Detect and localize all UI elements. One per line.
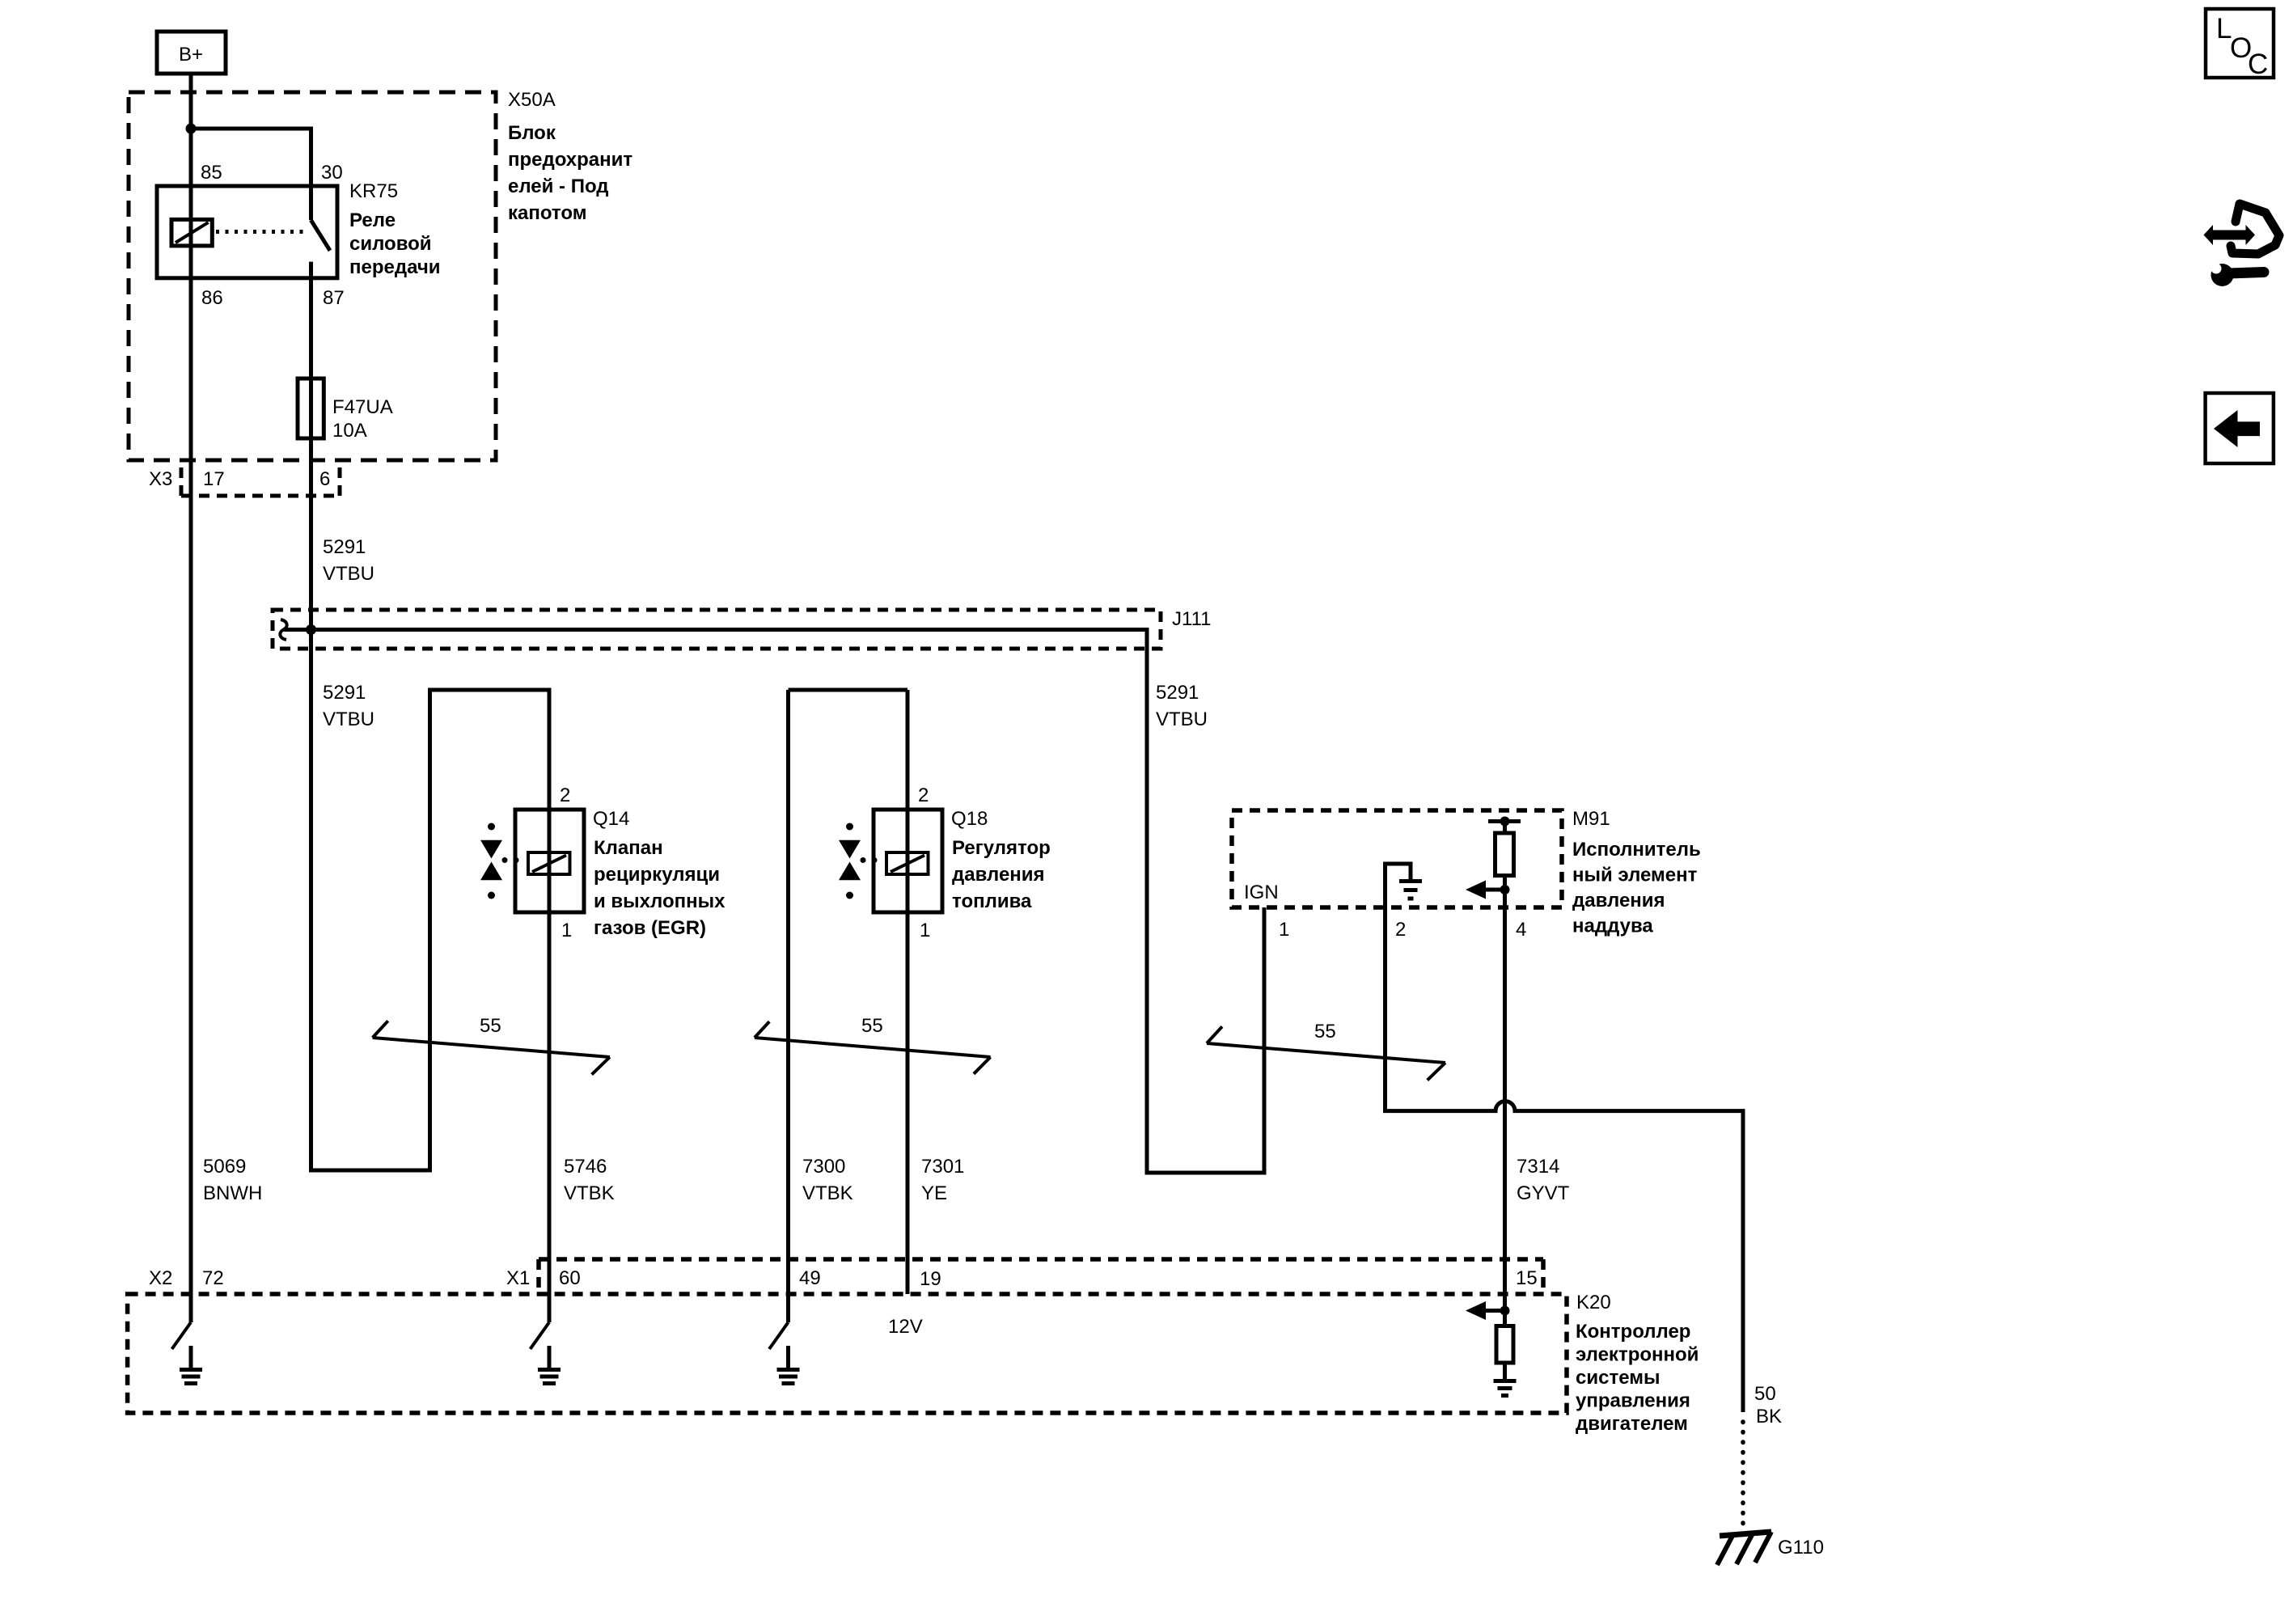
pin 2 of M91: [1395, 919, 1406, 941]
valve Q18 coil: [886, 852, 929, 874]
svg-text:30: 30: [321, 162, 343, 184]
node interrupt 55 at Q14 wires: [373, 1015, 610, 1075]
svg-text:1: 1: [561, 920, 572, 941]
svg-text:72: 72: [202, 1267, 224, 1289]
wire label 7314 GYVT: [1517, 1156, 1570, 1204]
ground inside M91: [1386, 864, 1423, 907]
node 12V label: [888, 1316, 923, 1338]
svg-text:X3: X3: [149, 468, 172, 490]
pin 17: [203, 468, 225, 490]
valve Q18 box: [874, 810, 942, 912]
node harness repair icon wrench: [2211, 264, 2265, 287]
fuse F47UA: [298, 379, 324, 438]
ground switch K20 pin 60: [531, 1322, 561, 1384]
fuse block X50A dashed outline: [129, 92, 496, 460]
svg-text:VTBU: VTBU: [1156, 708, 1208, 730]
node arrow marker inside M91: [1466, 881, 1510, 899]
svg-text:55: 55: [861, 1015, 883, 1037]
svg-text:85: 85: [201, 162, 222, 184]
svg-text:Реле: Реле: [349, 209, 396, 231]
svg-text:давления: давления: [1572, 890, 1665, 911]
svg-text:Исполнитель: Исполнитель: [1572, 839, 1701, 861]
svg-text:2: 2: [918, 785, 929, 806]
svg-text:87: 87: [323, 287, 345, 309]
svg-text:86: 86: [201, 287, 223, 309]
relay KR75 description: [349, 209, 441, 278]
svg-text:ный элемент: ный элемент: [1572, 865, 1698, 886]
svg-text:газов (EGR): газов (EGR): [594, 917, 706, 939]
pin 60: [559, 1267, 581, 1289]
svg-text:5069: 5069: [203, 1156, 246, 1178]
pin 49: [799, 1267, 821, 1289]
node Q14 label: [593, 808, 629, 830]
valve Q18 bowtie symbol: [839, 823, 878, 899]
node X3 label: [149, 468, 172, 490]
svg-text:GYVT: GYVT: [1517, 1182, 1570, 1204]
node Q18 description: [952, 837, 1051, 912]
svg-text:60: 60: [559, 1267, 581, 1289]
pin 1 of M91: [1279, 919, 1289, 941]
wire label 5069 BNWH: [203, 1156, 262, 1204]
node Q18 label: [951, 808, 988, 830]
svg-text:50: 50: [1754, 1383, 1776, 1405]
node G110 label: [1778, 1537, 1824, 1558]
connector X3 dashed bracket: [181, 467, 340, 496]
svg-text:VTBK: VTBK: [802, 1182, 853, 1204]
valve Q14 bowtie symbol: [480, 823, 519, 899]
connector X1 dashed shelf: [539, 1259, 1543, 1294]
node junction dot on B+ feed: [186, 124, 197, 134]
pin 1 of Q18: [920, 920, 930, 941]
svg-text:B+: B+: [179, 44, 203, 66]
svg-text:Клапан: Клапан: [594, 837, 663, 859]
relay KR75 label: [349, 180, 398, 202]
controller K20 dashed box: [128, 1294, 1567, 1413]
node J111 label: [1172, 608, 1211, 630]
wire Q18 pin1 to K20 pin 19 (7301 YE): [906, 690, 910, 1294]
wire J111 bus to IGN feed: [284, 630, 1264, 1174]
svg-text:6: 6: [319, 468, 330, 490]
svg-text:системы: системы: [1576, 1367, 1660, 1389]
svg-text:19: 19: [920, 1268, 941, 1290]
resistor inside K20: [1494, 1326, 1517, 1396]
svg-text:BK: BK: [1756, 1406, 1782, 1427]
node J111 splice hook: [280, 620, 286, 640]
svg-text:VTBU: VTBU: [323, 563, 374, 585]
svg-text:1: 1: [1279, 919, 1289, 941]
svg-text:C: C: [2248, 49, 2268, 80]
svg-text:55: 55: [480, 1015, 501, 1037]
node IGN label: [1244, 882, 1279, 903]
svg-text:2: 2: [1395, 919, 1406, 941]
svg-text:передачи: передачи: [349, 256, 441, 278]
pin 2 of Q18: [918, 785, 929, 806]
pin 19: [920, 1268, 941, 1290]
wire Q18 left loop to K20 pin 49: [789, 690, 908, 1322]
wire label 50 BK: [1754, 1383, 1782, 1427]
svg-text:G110: G110: [1778, 1537, 1824, 1558]
pin 86: [201, 287, 223, 309]
relay KR75 box: [157, 186, 337, 278]
wire label 5746 VTBK: [564, 1156, 615, 1204]
svg-text:15: 15: [1516, 1267, 1538, 1289]
svg-text:управления: управления: [1576, 1390, 1690, 1412]
node X50A description: [508, 122, 632, 224]
wire branch to relay pin 30: [191, 129, 311, 220]
svg-text:силовой: силовой: [349, 233, 432, 255]
svg-text:7300: 7300: [802, 1156, 845, 1178]
svg-text:KR75: KR75: [349, 180, 398, 202]
pin 87: [323, 287, 345, 309]
svg-text:VTBU: VTBU: [323, 708, 374, 730]
svg-text:М91: М91: [1572, 808, 1610, 830]
node arrow marker inside K20: [1466, 1301, 1510, 1320]
svg-text:Регулятор: Регулятор: [952, 837, 1051, 859]
svg-text:BNWH: BNWH: [203, 1182, 262, 1204]
wire label 7300 VTBK: [802, 1156, 853, 1204]
node X50A label: [508, 89, 556, 111]
svg-text:J111: J111: [1172, 608, 1211, 630]
svg-text:5746: 5746: [564, 1156, 607, 1178]
node K20 description: [1576, 1321, 1699, 1435]
svg-text:12V: 12V: [888, 1316, 923, 1338]
svg-text:капотом: капотом: [508, 202, 586, 224]
wire label 5291 VTBU right: [1156, 682, 1208, 730]
ground G110 chassis symbol: [1717, 1532, 1771, 1565]
splice pack J111 dashed box: [273, 610, 1161, 649]
node harness repair icon wire hook: [2231, 204, 2279, 254]
pin 72: [202, 1267, 224, 1289]
wire M91 pin 2 to 50 BK with hop over 7314: [1386, 907, 1744, 1412]
svg-text:7301: 7301: [921, 1156, 964, 1178]
node M91 description: [1572, 839, 1701, 937]
svg-text:4: 4: [1516, 919, 1526, 941]
svg-text:YE: YE: [921, 1182, 947, 1204]
svg-text:K20: K20: [1576, 1292, 1611, 1313]
svg-text:Блок: Блок: [508, 122, 556, 144]
svg-text:5291: 5291: [323, 682, 366, 704]
wire label 5291 VTBU left: [323, 682, 374, 730]
svg-text:Q18: Q18: [951, 808, 988, 830]
svg-text:55: 55: [1314, 1021, 1336, 1042]
relay KR75 coil: [171, 219, 212, 246]
svg-text:давления: давления: [952, 864, 1045, 886]
relay KR75 linkage dotted line: [216, 230, 306, 234]
node K20 label: [1576, 1292, 1611, 1313]
wire label 5291 VTBU upper: [323, 536, 374, 585]
svg-text:X50A: X50A: [508, 89, 556, 111]
svg-text:Q14: Q14: [593, 808, 629, 830]
svg-text:и выхлопных: и выхлопных: [594, 890, 726, 912]
node interrupt 55 at Q18 wires: [755, 1015, 991, 1074]
node M91 label: [1572, 808, 1610, 830]
pin 30: [321, 162, 343, 184]
pin 85: [201, 162, 222, 184]
pin 4 of M91: [1516, 919, 1526, 941]
ground switch K20 pin 49: [769, 1322, 800, 1384]
svg-text:F47UA: F47UA: [332, 396, 393, 418]
svg-text:IGN: IGN: [1244, 882, 1279, 903]
ground switch K20 pin 72: [172, 1322, 203, 1384]
svg-text:2: 2: [560, 785, 570, 806]
svg-text:двигателем: двигателем: [1576, 1413, 1688, 1435]
node Q14 description: [594, 837, 726, 939]
svg-text:Контроллер: Контроллер: [1576, 1321, 1690, 1343]
svg-text:электронной: электронной: [1576, 1344, 1699, 1366]
node back-arrow reference box: [2206, 393, 2274, 463]
svg-text:X2: X2: [149, 1267, 172, 1289]
svg-text:наддува: наддува: [1572, 916, 1653, 937]
svg-text:елей - Под: елей - Под: [508, 176, 609, 197]
svg-text:рециркуляци: рециркуляци: [594, 864, 720, 886]
valve Q14 box: [515, 810, 584, 912]
pin 2 of Q14: [560, 785, 570, 806]
svg-text:5291: 5291: [323, 536, 366, 558]
wire label 7301 YE: [921, 1156, 964, 1204]
svg-text:VTBK: VTBK: [564, 1182, 615, 1204]
node LOC reference box: [2206, 9, 2274, 80]
svg-text:X1: X1: [506, 1267, 530, 1289]
node harness repair icon double arrow: [2204, 225, 2256, 245]
node X2 label: [149, 1267, 172, 1289]
svg-text:7314: 7314: [1517, 1156, 1559, 1178]
wire dotted to G110: [1741, 1422, 1745, 1531]
svg-text:1: 1: [920, 920, 930, 941]
node interrupt 55 at IGN wires: [1207, 1021, 1445, 1081]
pin 15: [1516, 1267, 1538, 1289]
svg-text:49: 49: [799, 1267, 821, 1289]
actuator M91 dashed box: [1232, 810, 1562, 907]
svg-text:17: 17: [203, 468, 225, 490]
node junction dot at J111: [306, 624, 316, 635]
valve Q14 coil: [528, 852, 570, 874]
svg-text:10A: 10A: [332, 420, 367, 442]
wire relay pin 87 down through fuse to J111 and Q14 loop: [311, 278, 550, 1322]
relay KR75 switch blade: [311, 220, 331, 278]
resistor inside M91 with T-top: [1488, 817, 1521, 1326]
node X1 label: [506, 1267, 530, 1289]
pin 6: [319, 468, 330, 490]
pin 1 of Q14: [561, 920, 572, 941]
node F47UA 10A label: [332, 396, 393, 442]
svg-text:5291: 5291: [1156, 682, 1199, 704]
node B+ battery feed box: [157, 32, 226, 74]
wire B+ down to K20 pin 72 (5069 BNWH): [189, 74, 193, 1322]
svg-text:предохранит: предохранит: [508, 149, 632, 171]
svg-text:топлива: топлива: [952, 890, 1032, 912]
